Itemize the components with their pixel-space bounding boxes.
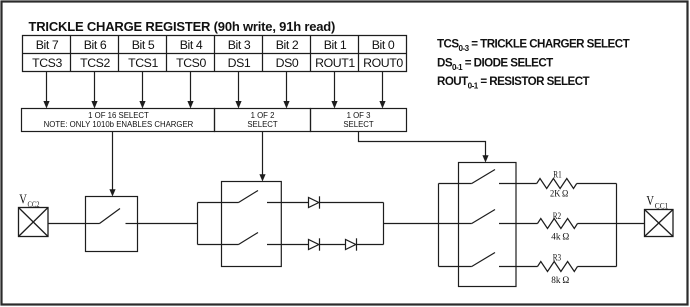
svg-text:DS0: DS0 — [276, 56, 299, 70]
VCC1 supply symbol — [645, 210, 674, 237]
svg-text:ROUT1: ROUT1 — [315, 56, 355, 70]
resistor R2 — [538, 219, 578, 229]
wire D1 to collector node — [320, 202, 384, 204]
switch blade U3c — [439, 253, 538, 267]
svg-text:CC1: CC1 — [655, 200, 669, 210]
wire decoder3 to switch U3 with arrow — [359, 132, 489, 163]
svg-text:Bit 0: Bit 0 — [372, 38, 395, 52]
svg-text:ROUT0-1 = RESISTOR SELECT: ROUT0-1 = RESISTOR SELECT — [437, 75, 590, 90]
svg-text:1 OF 16 SELECT: 1 OF 16 SELECT — [88, 111, 149, 120]
label VCC2 — [19, 193, 39, 209]
wire R2 to VCC1 — [578, 223, 645, 225]
svg-text:Bit 4: Bit 4 — [180, 38, 203, 52]
svg-text:NOTE: ONLY 1010b ENABLES CHARG: NOTE: ONLY 1010b ENABLES CHARGER — [44, 120, 194, 129]
svg-text:1 OF 3: 1 OF 3 — [347, 111, 371, 120]
junction vertical R1-R2-R3 — [616, 184, 618, 267]
label VCC1 — [646, 194, 668, 210]
wire R3 to junction — [578, 266, 617, 268]
svg-text:TCS0-3 = TRICKLE CHARGER SELEC: TCS0-3 = TRICKLE CHARGER SELECT — [437, 38, 630, 53]
svg-text:Bit 3: Bit 3 — [228, 38, 251, 52]
wire collector to U3 bracket — [384, 223, 439, 225]
VCC2 supply symbol — [19, 208, 49, 237]
svg-text:2K Ω: 2K Ω — [550, 190, 568, 200]
svg-text:R3: R3 — [553, 253, 562, 263]
node bracket at U2 input — [197, 203, 199, 245]
arrow bit1 to select — [331, 72, 337, 109]
resistor R3 — [538, 262, 578, 272]
arrow bit3 to select — [235, 72, 241, 109]
wire VCC2 to switch U1 — [48, 223, 86, 225]
svg-text:V: V — [19, 193, 27, 208]
svg-text:TCS1: TCS1 — [128, 56, 158, 70]
svg-text:ROUT0: ROUT0 — [363, 56, 403, 70]
svg-text:SELECT: SELECT — [247, 120, 278, 129]
switch box U1 — [86, 197, 138, 252]
svg-text:DS1: DS1 — [228, 56, 251, 70]
register table grid — [23, 36, 407, 72]
switch blade U1 — [86, 209, 138, 224]
switch blade U2a — [198, 191, 309, 203]
svg-text:TCS2: TCS2 — [80, 56, 110, 70]
arrow bit2 to select — [283, 72, 289, 109]
svg-text:V: V — [646, 194, 654, 209]
wire D3 to collector node — [357, 244, 384, 246]
svg-text:1 OF 2: 1 OF 2 — [251, 111, 275, 120]
switch box U2 — [222, 182, 282, 267]
switch box U3 — [459, 163, 517, 287]
diode D1 — [309, 196, 320, 208]
wire decoder2 to switch U2 with arrow — [259, 132, 265, 182]
wire R1 to junction — [577, 183, 617, 185]
svg-text:Bit 7: Bit 7 — [36, 38, 59, 52]
svg-text:Bit 1: Bit 1 — [324, 38, 347, 52]
decoder box 1 OF 16 SELECT — [22, 109, 215, 132]
arrow bit7 to select — [43, 72, 49, 109]
diode D3 — [346, 238, 357, 250]
svg-text:DS0-1 = DIODE SELECT: DS0-1 = DIODE SELECT — [437, 57, 553, 72]
svg-text:Bit 2: Bit 2 — [276, 38, 299, 52]
svg-text:TRICKLE CHARGE REGISTER (90h w: TRICKLE CHARGE REGISTER (90h write, 91h … — [29, 19, 336, 34]
svg-text:Bit 6: Bit 6 — [84, 38, 107, 52]
switch blade U3a — [439, 170, 537, 184]
wire decoder1 to switch U1 with arrow — [109, 132, 115, 197]
svg-text:Bit 5: Bit 5 — [132, 38, 155, 52]
svg-text:4k Ω: 4k Ω — [551, 232, 569, 242]
svg-text:TCS0: TCS0 — [176, 56, 206, 70]
svg-text:R2: R2 — [553, 212, 562, 222]
arrow bit5 to select — [139, 72, 145, 109]
diode D2 — [309, 238, 320, 250]
switch blade U2b — [198, 233, 309, 245]
svg-text:R1: R1 — [553, 171, 562, 181]
decoder box 1 OF 2 SELECT — [215, 109, 311, 132]
switch blade U3b — [439, 210, 538, 224]
node bracket at U3 input — [438, 184, 440, 267]
wire U1 to node bracket — [138, 223, 198, 225]
arrow bit0 to select — [379, 72, 385, 109]
svg-text:CC2: CC2 — [28, 199, 40, 209]
decoder box 1 OF 3 SELECT — [311, 109, 407, 132]
arrow bit4 to select — [187, 72, 193, 109]
svg-text:TCS3: TCS3 — [32, 56, 62, 70]
svg-text:8k Ω: 8k Ω — [551, 276, 569, 286]
wire D2 to D3 — [320, 244, 346, 246]
resistor R1 — [537, 179, 577, 189]
svg-text:SELECT: SELECT — [343, 120, 374, 129]
collector node vertical — [383, 203, 385, 245]
arrow bit6 to select — [91, 72, 97, 109]
